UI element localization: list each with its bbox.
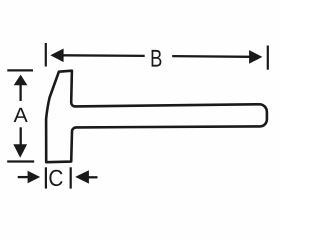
dimension B arrow right: [249, 50, 262, 64]
dimension B tick right: [267, 46, 269, 70]
dimension A line lower segment: [20, 127, 22, 145]
dimension A arrow down: [13, 144, 27, 158]
dimension A arrow up: [14, 75, 28, 86]
dimension A tick bottom: [7, 160, 34, 162]
dimension B tick left: [45, 43, 47, 67]
dimension B line left segment: [63, 54, 145, 57]
dimension C tick left: [45, 167, 47, 188]
dimension B line right segment: [172, 55, 249, 58]
dimension C arrow left: [75, 170, 89, 183]
dimension C arrow right: [28, 171, 41, 184]
dimension C line left segment: [18, 176, 30, 178]
dimension A line upper segment: [19, 85, 21, 102]
dimension B arrow left: [50, 49, 63, 63]
hammer outline: [46, 71, 267, 163]
dimension C line right segment: [88, 176, 97, 178]
dimension A tick top: [7, 69, 33, 71]
dimension B label: [152, 50, 162, 67]
dimension C label: [49, 170, 62, 186]
dimension A label: [14, 108, 28, 122]
dimension C tick right: [70, 167, 72, 188]
